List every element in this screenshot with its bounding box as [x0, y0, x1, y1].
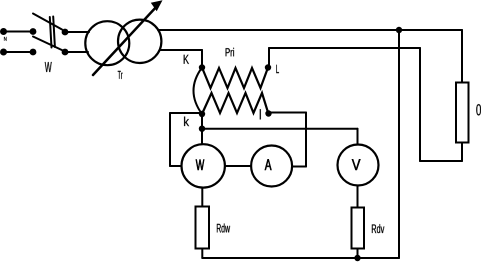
resistor Rdw	[196, 207, 210, 249]
wire	[268, 48, 270, 68]
label Rdv	[372, 224, 384, 233]
wire	[357, 129, 359, 145]
wire	[170, 112, 202, 114]
resistor Rdv	[352, 208, 365, 249]
wire	[158, 29, 399, 31]
wire	[269, 112, 307, 114]
wire	[4, 31, 34, 33]
wire	[461, 30, 463, 83]
switch W	[30, 14, 69, 56]
wire	[225, 165, 251, 167]
wire	[419, 48, 421, 161]
wire	[65, 51, 88, 53]
wire	[269, 47, 420, 49]
node L	[265, 64, 271, 70]
wire	[420, 160, 462, 162]
ammeter A	[251, 146, 292, 187]
wire	[461, 143, 463, 162]
node K	[199, 64, 205, 70]
label l	[260, 109, 261, 119]
wire	[292, 166, 306, 168]
label W	[45, 62, 52, 72]
wire	[201, 188, 203, 207]
label N	[4, 37, 7, 41]
label A meter	[265, 159, 272, 170]
node junction	[199, 126, 205, 132]
variable tap arrow	[93, 0, 163, 75]
node l	[265, 110, 271, 116]
resistor Pri bottom winding	[202, 93, 269, 114]
node k	[199, 111, 205, 117]
wire bottom rail	[202, 257, 399, 259]
wire	[65, 31, 89, 33]
label K	[184, 55, 189, 64]
label L	[276, 65, 279, 73]
label Pri	[226, 48, 234, 56]
wattmeter W	[182, 144, 225, 187]
autotransformer Tr	[85, 20, 161, 66]
resistor Pri top winding	[202, 68, 268, 89]
wire	[201, 50, 203, 68]
wire	[4, 51, 34, 53]
wire	[201, 249, 203, 259]
wire	[357, 186, 359, 208]
wire	[202, 128, 358, 130]
label O	[476, 104, 481, 115]
voltmeter V	[338, 145, 379, 186]
source terminal bottom	[0, 49, 7, 56]
wire	[169, 113, 171, 166]
label Tr	[118, 71, 123, 79]
label V meter	[352, 159, 361, 170]
wire	[170, 165, 182, 167]
label Rdw	[217, 224, 230, 233]
resistor O	[456, 83, 469, 143]
wire	[305, 113, 307, 167]
wire	[399, 29, 462, 31]
node junction	[396, 27, 402, 33]
label W meter	[196, 160, 204, 171]
wire	[357, 249, 359, 259]
source terminal top	[0, 28, 7, 35]
node junction	[354, 255, 360, 261]
wire right riser	[398, 30, 400, 258]
wire	[201, 114, 203, 145]
label k	[184, 117, 189, 126]
wire	[160, 49, 202, 51]
slide-wire arc	[194, 68, 203, 115]
